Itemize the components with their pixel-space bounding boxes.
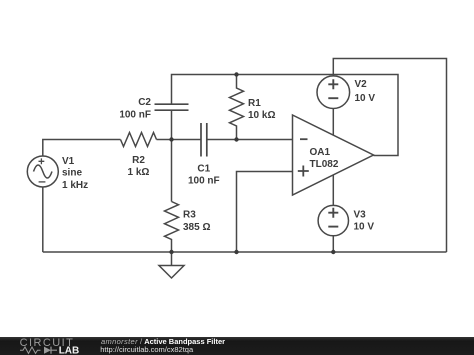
- V3 minus: [328, 226, 338, 228]
- svg-text:10 V: 10 V: [355, 93, 376, 104]
- svg-text:OA1: OA1: [310, 147, 331, 158]
- svg-text:385 Ω: 385 Ω: [183, 222, 210, 233]
- node R1 top junction: [234, 72, 238, 76]
- logo resistor squiggle and diode: [20, 347, 41, 353]
- voltage source V1: [27, 156, 58, 187]
- op-amp plus input symbol: [298, 166, 309, 177]
- svg-text:100 nF: 100 nF: [188, 176, 220, 187]
- node R2/C2/C1/R3 junction: [169, 137, 173, 141]
- wire V2 to op-amp power: [332, 109, 334, 136]
- node ground junction: [169, 250, 173, 254]
- wire R3 top lead: [171, 140, 173, 202]
- voltage source V3: [318, 205, 348, 235]
- svg-text:R1: R1: [248, 98, 261, 109]
- resistor R1: [230, 75, 244, 140]
- ground: [159, 252, 184, 278]
- svg-text:C2: C2: [138, 97, 151, 108]
- svg-text:1 kΩ: 1 kΩ: [128, 167, 150, 178]
- V3 plus: [328, 208, 338, 218]
- svg-text:R2: R2: [132, 155, 145, 166]
- svg-text:V2: V2: [355, 79, 368, 90]
- svg-text:100 nF: 100 nF: [119, 109, 151, 120]
- V1 sine symbol: [34, 165, 53, 178]
- svg-text:C1: C1: [197, 164, 210, 175]
- resistor R3: [165, 202, 179, 253]
- node V3 rail junction: [331, 250, 335, 254]
- svg-text:LAB: LAB: [59, 346, 80, 355]
- node R1 bottom junction: [234, 137, 238, 141]
- node plus-input rail junction: [234, 250, 238, 254]
- svg-text:TL082: TL082: [310, 159, 339, 170]
- wire V1 bottom: [42, 187, 44, 252]
- op-amp minus input symbol: [300, 138, 308, 140]
- wire R2 to C1: [157, 139, 202, 141]
- svg-text:http://circuitlab.com/cx82tqa: http://circuitlab.com/cx82tqa: [100, 345, 194, 354]
- voltage source V2: [317, 76, 350, 109]
- wire V1 top to R2: [43, 140, 121, 157]
- capacitor C2: [155, 104, 189, 110]
- svg-text:V3: V3: [354, 210, 367, 221]
- wire C1 to op-amp: [207, 139, 293, 141]
- resistor R2: [121, 133, 157, 147]
- wire V2 top to right rail: [333, 59, 446, 253]
- wire op-amp to V3: [332, 175, 334, 206]
- wire C2 bottom lead: [171, 110, 173, 139]
- svg-text:1 kHz: 1 kHz: [62, 180, 88, 191]
- V1 plus: [39, 158, 45, 164]
- svg-text:10 V: 10 V: [354, 221, 375, 232]
- op-amp OA1: [293, 115, 374, 195]
- wire op-amp plus input to rail: [237, 172, 293, 253]
- svg-text:sine: sine: [62, 168, 82, 179]
- capacitor C1: [201, 123, 207, 157]
- V1 minus: [39, 181, 46, 183]
- wire bottom rail: [43, 251, 447, 253]
- wire V3 bottom: [332, 236, 334, 252]
- svg-text:10 kΩ: 10 kΩ: [248, 110, 275, 121]
- wire C2 top feedback to op-amp output: [172, 75, 399, 156]
- V2 minus: [328, 97, 338, 99]
- svg-text:V1: V1: [62, 156, 75, 167]
- svg-text:R3: R3: [183, 210, 196, 221]
- V2 plus: [328, 79, 338, 89]
